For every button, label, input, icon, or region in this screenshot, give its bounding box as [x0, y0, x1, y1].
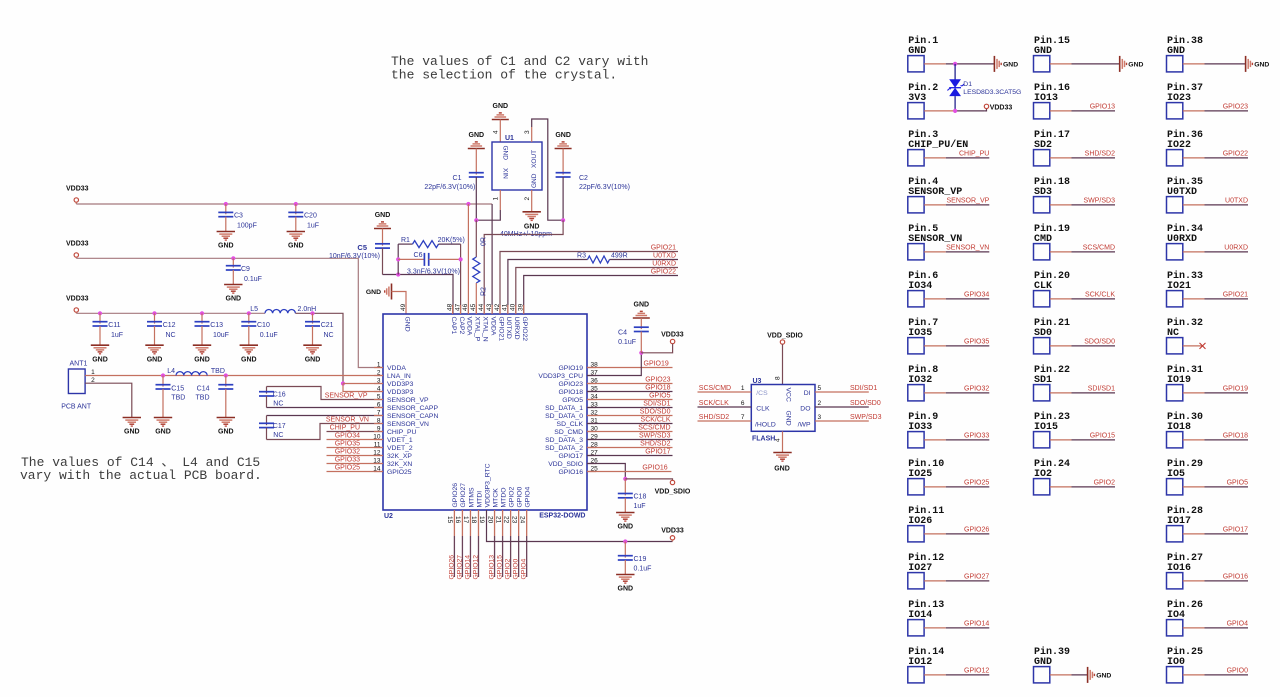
- svg-text:D1: D1: [963, 81, 972, 88]
- svg-text:U0TXD: U0TXD: [505, 317, 512, 339]
- wire/net SWP/SD3 right row: [587, 439, 673, 441]
- svg-text:0R: 0R: [481, 237, 488, 246]
- svg-text:32K_XN: 32K_XN: [387, 461, 412, 468]
- svg-text:23: 23: [510, 516, 517, 524]
- wire/net GPIO34 left pin: [327, 439, 384, 441]
- wire SENSOR_VP pin5: [267, 387, 384, 400]
- node C6 left: [396, 257, 400, 261]
- wire/net GPIO0 Pin.25: [1183, 674, 1205, 676]
- wire/net GPIO19 Pin.31: [1183, 392, 1205, 394]
- svg-text:GPIO33: GPIO33: [335, 457, 360, 464]
- svg-text:2: 2: [818, 400, 822, 407]
- svg-text:C2: C2: [579, 175, 588, 182]
- svg-text:CAP1: CAP1: [450, 317, 457, 335]
- svg-text:GPIO27: GPIO27: [460, 483, 467, 508]
- node C19: [623, 539, 627, 543]
- wire/net GPIO18 Pin.30: [1183, 439, 1205, 441]
- svg-text:C13: C13: [210, 322, 223, 329]
- wire to pin4 VDD3P3: [343, 384, 383, 392]
- svg-text:GPIO22: GPIO22: [521, 317, 528, 342]
- capacitor C11: [99, 313, 101, 323]
- wire GPIO19 row right: [587, 367, 673, 369]
- svg-text:GND: GND: [1128, 62, 1143, 69]
- wire/net GPIO32 left pin: [327, 455, 384, 457]
- wire flash pin4 GND: [782, 431, 784, 452]
- svg-text:GPIO23: GPIO23: [645, 377, 670, 384]
- svg-text:MTDI: MTDI: [476, 491, 483, 508]
- svg-text:GND: GND: [241, 356, 257, 363]
- svg-text:GND: GND: [147, 356, 163, 363]
- wire/net SCK/CLK Pin.20: [1050, 298, 1072, 300]
- svg-text:SDI/SD1: SDI/SD1: [850, 385, 877, 392]
- svg-text:LNA_IN: LNA_IN: [387, 373, 411, 380]
- wire/net GPIO14 Pin.13: [924, 627, 946, 629]
- svg-text:3: 3: [524, 130, 531, 134]
- inductor L5: [265, 310, 295, 314]
- capacitor C13: [201, 313, 203, 323]
- node rail1-pin46: [466, 202, 470, 206]
- svg-text:SD_DATA_3: SD_DATA_3: [545, 437, 583, 444]
- svg-text:GPIO25: GPIO25: [335, 465, 360, 472]
- svg-text:CAP2: CAP2: [458, 317, 465, 335]
- svg-text:GPIO4: GPIO4: [524, 487, 531, 508]
- node C4-VDD33: [639, 351, 643, 355]
- svg-text:GND: GND: [469, 132, 485, 139]
- svg-text:GND: GND: [502, 146, 509, 161]
- svg-text:GPIO4: GPIO4: [521, 559, 528, 580]
- svg-text:499R: 499R: [611, 252, 628, 259]
- svg-text:C5: C5: [357, 243, 367, 252]
- svg-text:GPIO25: GPIO25: [964, 479, 989, 486]
- wire XTAL_P R2 to pin45: [475, 220, 477, 257]
- svg-text:0.1uF: 0.1uF: [634, 565, 652, 572]
- svg-text:GPIO35: GPIO35: [964, 338, 989, 345]
- svg-text:GPIO27: GPIO27: [456, 555, 463, 580]
- svg-text:GND: GND: [155, 429, 171, 436]
- wire/net GPIO18 right row: [587, 391, 673, 393]
- svg-text:22: 22: [502, 516, 509, 524]
- svg-text:22pF/6.3V(10%): 22pF/6.3V(10%): [424, 184, 475, 191]
- svg-text:XTAL_P: XTAL_P: [474, 317, 481, 342]
- svg-text:SDI/SD1: SDI/SD1: [1088, 385, 1115, 392]
- capacitor C9: [232, 258, 234, 267]
- svg-text:GPIO34: GPIO34: [335, 433, 360, 440]
- svg-text:GPIO26: GPIO26: [448, 555, 455, 580]
- capacitor C18: [624, 479, 626, 496]
- wire/net GPIO5 Pin.29: [1183, 486, 1205, 488]
- capacitor C5: [382, 229, 384, 246]
- wire/net GPIO21 Pin.33: [1183, 298, 1205, 300]
- wire U0TXD row with R3: [508, 260, 588, 315]
- wire GPIO22 row: [524, 276, 678, 315]
- wire Pin.15 to ground: [1050, 63, 1072, 65]
- svg-text:the selection of the crystal.: the selection of the crystal.: [391, 68, 617, 83]
- svg-text:GND: GND: [305, 356, 321, 363]
- wire/net SHD/SD2 flash left: [698, 420, 752, 422]
- svg-text:U0RXD: U0RXD: [652, 260, 676, 267]
- wire/net SDI/SD1 flash right: [815, 391, 869, 393]
- svg-text:GPIO17: GPIO17: [558, 453, 583, 460]
- svg-text:U0RXD: U0RXD: [1224, 244, 1248, 251]
- wire/net GPIO17 right row: [587, 455, 673, 457]
- node C6 right: [459, 257, 463, 261]
- svg-text:21: 21: [494, 516, 501, 524]
- svg-text:LESD8D3.3CAT5G: LESD8D3.3CAT5G: [963, 89, 1021, 96]
- ground below C12: [145, 344, 163, 346]
- svg-text:U0TXD: U0TXD: [653, 252, 676, 259]
- svg-text:U3: U3: [753, 378, 762, 385]
- svg-text:SWP/SD3: SWP/SD3: [1083, 197, 1115, 204]
- svg-text:VCC: VCC: [785, 388, 792, 402]
- svg-text:MTCK: MTCK: [492, 488, 499, 508]
- wire crystal pin4 to gnd: [499, 120, 501, 143]
- svg-text:NC: NC: [273, 432, 283, 439]
- wire/net GPIO25 left pin: [327, 471, 384, 473]
- svg-text:C9: C9: [241, 266, 250, 273]
- svg-text:NC: NC: [273, 400, 283, 407]
- capacitor C12: [154, 313, 156, 323]
- ground below C9: [224, 284, 242, 286]
- svg-text:1uF: 1uF: [307, 223, 319, 230]
- node XTAL_N: [561, 218, 565, 222]
- svg-text:vary with the actual PCB board: vary with the actual PCB board.: [20, 468, 262, 483]
- svg-text:VDD33: VDD33: [66, 296, 89, 303]
- svg-text:SHD/SD2: SHD/SD2: [640, 441, 670, 448]
- node XTAL_P: [474, 218, 478, 222]
- power terminal VDD33 at Pin.2: [984, 109, 986, 111]
- svg-text:U2: U2: [384, 513, 393, 520]
- svg-text:SDO/SD0: SDO/SD0: [640, 409, 671, 416]
- capacitor C20: [295, 204, 297, 214]
- svg-text:MTDO: MTDO: [500, 487, 507, 507]
- capacitor C15: [162, 376, 164, 387]
- svg-text:C1: C1: [453, 175, 462, 182]
- svg-text:VDD33: VDD33: [990, 104, 1013, 111]
- svg-text:SDO/SD0: SDO/SD0: [850, 400, 881, 407]
- wire/net GPIO35 left pin: [327, 447, 384, 449]
- svg-text:CLK: CLK: [756, 405, 770, 412]
- svg-text:NC: NC: [166, 332, 176, 339]
- svg-text:GND: GND: [618, 586, 634, 593]
- svg-text:VDD_SDIO: VDD_SDIO: [655, 489, 691, 496]
- svg-text:U0RXD: U0RXD: [513, 317, 520, 340]
- svg-text:C19: C19: [634, 556, 647, 563]
- wire/net SWP/SD3 flash right: [815, 420, 869, 422]
- svg-text:PCB ANT: PCB ANT: [61, 403, 92, 410]
- capacitor C3: [225, 204, 227, 214]
- node rail3-C12: [152, 311, 156, 315]
- node rail3-C13: [200, 311, 204, 315]
- wire/net GPIO33 Pin.9: [924, 439, 946, 441]
- wire/net SDO/SD0 right row: [587, 415, 673, 417]
- svg-text:C4: C4: [618, 329, 627, 336]
- wire Pin.38 to ground: [1183, 63, 1205, 65]
- svg-text:2: 2: [524, 197, 531, 201]
- wire Pin.1 gnd net: [953, 62, 957, 66]
- svg-text:10nF/6.3V(10%): 10nF/6.3V(10%): [329, 253, 380, 260]
- wire ANT pin1 to LNA_IN: [85, 375, 383, 377]
- wire/net SCS/CMD right row: [587, 431, 673, 433]
- svg-text:VDDA: VDDA: [466, 317, 473, 336]
- power terminal VDD_SDIO right of U2: [625, 479, 672, 481]
- ground below C10: [240, 344, 258, 346]
- svg-text:VDD33: VDD33: [661, 331, 684, 338]
- svg-text:C11: C11: [108, 322, 120, 329]
- node rail2-C9: [231, 256, 235, 260]
- wire VDD3P3_RTC pin19 to VDD33 rail: [487, 510, 673, 542]
- svg-text:GPIO22: GPIO22: [651, 268, 676, 275]
- svg-text:GPIO12: GPIO12: [964, 667, 989, 674]
- wire/net GPIO4 Pin.26: [1183, 627, 1205, 629]
- node ant-C14: [224, 373, 228, 377]
- svg-text:SD_DATA_1: SD_DATA_1: [545, 405, 583, 412]
- svg-text:SENSOR_VN: SENSOR_VN: [387, 421, 429, 428]
- svg-text:GPIO0: GPIO0: [516, 487, 523, 508]
- svg-text:SENSOR_CAPP: SENSOR_CAPP: [387, 405, 438, 412]
- U2 bottom pin wires: [453, 510, 455, 536]
- wire Pin.1 to ground: [924, 63, 946, 65]
- wire GPIO21 row: [500, 252, 678, 315]
- ground below C19: [616, 574, 634, 576]
- capacitor C14: [225, 376, 227, 387]
- svg-text:SD_CLK: SD_CLK: [557, 421, 584, 428]
- wire/net U0TXD Pin.35: [1183, 204, 1205, 206]
- svg-text:GPIO0: GPIO0: [513, 559, 520, 580]
- svg-text:C10: C10: [257, 322, 270, 329]
- wire/net SDI/SD1 right row: [587, 407, 673, 409]
- wire R1 right vertical to pin47: [460, 244, 462, 314]
- wire crystal pin2 to gnd: [531, 190, 533, 212]
- svg-text:GPIO16: GPIO16: [642, 464, 667, 471]
- svg-text:20K(5%): 20K(5%): [438, 237, 465, 244]
- svg-text:GPIO18: GPIO18: [645, 385, 670, 392]
- capacitor C10: [248, 313, 250, 323]
- wire/net GPIO15 Pin.23: [1050, 439, 1072, 441]
- node rail3-C11: [98, 311, 102, 315]
- wire/net GPIO26 Pin.11: [924, 533, 946, 535]
- ground below crystal pin2: [523, 211, 541, 213]
- node VDD3P3: [341, 381, 345, 385]
- svg-text:CHIP_PU: CHIP_PU: [387, 429, 417, 436]
- svg-text:VDD33: VDD33: [66, 186, 89, 193]
- svg-text:16: 16: [454, 516, 461, 524]
- svg-text:GND: GND: [774, 466, 790, 473]
- wire/net GPIO16 Pin.27: [1183, 580, 1205, 582]
- svg-text:GND: GND: [124, 429, 140, 436]
- svg-text:VDD_SDIO: VDD_SDIO: [767, 332, 803, 339]
- svg-text:32K_XP: 32K_XP: [387, 453, 412, 460]
- svg-text:GPIO14: GPIO14: [464, 555, 471, 580]
- svg-text:/HOLD: /HOLD: [755, 421, 776, 428]
- IC U3 FLASH: [751, 385, 815, 432]
- wire/net GPIO17 Pin.28: [1183, 533, 1205, 535]
- svg-text:GPIO27: GPIO27: [964, 573, 989, 580]
- svg-text:VDET_1: VDET_1: [387, 437, 413, 444]
- svg-text:GPIO25: GPIO25: [387, 469, 412, 476]
- svg-text:GPIO21: GPIO21: [497, 317, 504, 342]
- svg-text:GND: GND: [218, 429, 234, 436]
- svg-text:18: 18: [470, 516, 477, 524]
- svg-text:C14: C14: [197, 386, 210, 393]
- svg-text:C12: C12: [163, 322, 176, 329]
- svg-text:/WP: /WP: [798, 421, 811, 428]
- svg-text:15: 15: [446, 516, 453, 524]
- svg-text:GND: GND: [1254, 62, 1269, 69]
- svg-text:24: 24: [518, 516, 525, 524]
- svg-text:SCK/CLK: SCK/CLK: [1085, 291, 1115, 298]
- svg-text:SD_DATA_2: SD_DATA_2: [545, 445, 583, 452]
- ground below C13: [193, 344, 211, 346]
- wire GPIO16 pin25: [587, 471, 671, 473]
- svg-text:GND: GND: [226, 296, 242, 303]
- svg-text:8: 8: [774, 376, 781, 380]
- ground Pin.38: [1245, 56, 1247, 72]
- svg-text:VDET_2: VDET_2: [387, 445, 413, 452]
- svg-text:3.3nF/6.3V(10%): 3.3nF/6.3V(10%): [407, 268, 460, 275]
- ground below C21: [303, 344, 321, 346]
- svg-text:VDD3P3_CPU: VDD3P3_CPU: [538, 373, 583, 380]
- svg-text:R3: R3: [577, 252, 586, 259]
- ground below C18: [616, 512, 634, 514]
- svg-text:0.1uF: 0.1uF: [618, 339, 636, 346]
- svg-text:XTAL_N: XTAL_N: [482, 317, 489, 342]
- svg-text:17: 17: [462, 516, 469, 524]
- wire/net SENSOR_VN Pin.5: [924, 251, 946, 253]
- svg-text:GPIO22: GPIO22: [1223, 150, 1248, 157]
- antenna ANT1: [68, 369, 85, 394]
- resistor R1: [398, 243, 412, 245]
- ground Pin.15: [1119, 56, 1121, 72]
- node rail1-C3: [224, 202, 228, 206]
- svg-text:10uF: 10uF: [213, 332, 229, 339]
- svg-text:1uF: 1uF: [634, 503, 646, 510]
- svg-text:L5: L5: [250, 306, 258, 313]
- svg-text:R1: R1: [401, 237, 410, 244]
- svg-text:GND: GND: [531, 173, 538, 188]
- wire C17 to SENSOR_VN pin8: [267, 424, 384, 440]
- svg-text:GPIO13: GPIO13: [1090, 103, 1115, 110]
- svg-text:GPIO32: GPIO32: [335, 449, 360, 456]
- svg-text:CHIP_PU: CHIP_PU: [330, 425, 360, 432]
- wire VDD33 rail2: [76, 258, 383, 367]
- crystal U1: [492, 142, 542, 190]
- svg-text:GND: GND: [92, 356, 108, 363]
- wire/net SCS/CMD Pin.19: [1050, 251, 1072, 253]
- ground below C3: [217, 231, 235, 233]
- svg-text:VDD3P3: VDD3P3: [387, 381, 414, 388]
- wire U0RXD row: [516, 268, 678, 315]
- svg-text:CHIP_PU: CHIP_PU: [959, 150, 989, 157]
- node ant-C15: [161, 373, 165, 377]
- svg-text:GND: GND: [524, 223, 540, 230]
- svg-text:C6: C6: [414, 252, 423, 259]
- svg-text:GND: GND: [785, 411, 792, 426]
- svg-text:GPIO34: GPIO34: [964, 291, 989, 298]
- diode D1 TVS: [954, 64, 956, 80]
- wire/net SWP/SD3 Pin.18: [1050, 204, 1072, 206]
- wire crystal pin1 XIN: [499, 190, 501, 210]
- svg-text:100pF: 100pF: [237, 223, 257, 230]
- wire/net GPIO13 Pin.16: [1050, 110, 1072, 112]
- wire Pin.32 no-connect: [1183, 345, 1203, 347]
- svg-text:U1: U1: [505, 135, 514, 142]
- svg-text:GPIO2: GPIO2: [508, 487, 515, 508]
- svg-text:GPIO19: GPIO19: [558, 365, 583, 372]
- svg-text:GND: GND: [403, 317, 410, 332]
- svg-text:VDD3P3_RTC: VDD3P3_RTC: [484, 463, 491, 507]
- svg-text:GPIO18: GPIO18: [1223, 432, 1248, 439]
- svg-text:SD_CMD: SD_CMD: [554, 429, 583, 436]
- svg-text:GPIO15: GPIO15: [1090, 432, 1115, 439]
- svg-text:SHD/SD2: SHD/SD2: [699, 414, 729, 421]
- svg-text:GND: GND: [218, 243, 234, 250]
- wire ANT pin2 to ground: [85, 383, 132, 417]
- svg-text:R2: R2: [481, 287, 488, 296]
- svg-text:ANT1: ANT1: [70, 361, 88, 368]
- wire VDD3P3_CPU to C4/VDD33: [587, 353, 641, 376]
- capacitor C19: [624, 542, 626, 558]
- IC U2 ESP32-DOWD: [383, 314, 587, 510]
- svg-text:VDD33: VDD33: [66, 241, 89, 248]
- svg-text:6: 6: [741, 400, 745, 407]
- svg-text:SCK/CLK: SCK/CLK: [699, 400, 729, 407]
- svg-text:GPIO16: GPIO16: [558, 469, 583, 476]
- svg-text:SENSOR_CAPN: SENSOR_CAPN: [387, 413, 438, 420]
- svg-text:GPIO2: GPIO2: [505, 559, 512, 580]
- wire XTAL_N to pin44: [484, 220, 563, 314]
- ground below C15: [154, 417, 172, 419]
- svg-text:GPIO5: GPIO5: [1227, 479, 1249, 486]
- wire/net SDO/SD0 flash right: [815, 406, 869, 408]
- wire/net GPIO34 Pin.6: [924, 298, 946, 300]
- svg-text:SWP/SD3: SWP/SD3: [639, 433, 671, 440]
- wire flash pin8 VCC: [782, 344, 784, 384]
- svg-text:0.1uF: 0.1uF: [244, 276, 262, 283]
- svg-text:GPIO2: GPIO2: [1094, 479, 1116, 486]
- svg-text:GND: GND: [493, 103, 509, 110]
- ground ANT pin2: [123, 417, 141, 419]
- node CAP1-R1C6: [396, 272, 400, 276]
- ground below flash: [773, 452, 791, 454]
- svg-text:7: 7: [741, 414, 745, 421]
- svg-text:TBD: TBD: [211, 368, 225, 375]
- svg-text:GPIO12: GPIO12: [472, 555, 479, 580]
- capacitor C16: [266, 387, 268, 394]
- wire VDD33 rail3: [76, 312, 265, 314]
- inductor L4: [176, 372, 207, 376]
- svg-text:GPIO26: GPIO26: [452, 483, 459, 508]
- svg-text:C16: C16: [273, 391, 286, 398]
- wire/net SHD/SD2 Pin.17: [1050, 157, 1072, 159]
- wire/net GPIO5 right row: [587, 399, 673, 401]
- svg-text:C18: C18: [634, 494, 647, 501]
- svg-text:GPIO23: GPIO23: [558, 381, 583, 388]
- svg-text:U0TXD: U0TXD: [1225, 197, 1248, 204]
- ground below C14: [217, 417, 235, 419]
- svg-text:C17: C17: [273, 423, 286, 430]
- svg-text:SCS/CMD: SCS/CMD: [638, 425, 670, 432]
- svg-text:L4: L4: [167, 368, 175, 375]
- svg-text:GPIO16: GPIO16: [1223, 573, 1248, 580]
- svg-text:DO: DO: [800, 405, 810, 412]
- node rail3-C10: [247, 311, 251, 315]
- svg-text:DI: DI: [804, 390, 811, 397]
- capacitor C2: [562, 149, 564, 175]
- svg-text:SENSOR_VP: SENSOR_VP: [387, 397, 429, 404]
- wire/net GPIO25 Pin.10: [924, 486, 946, 488]
- svg-text:SENSOR_VN: SENSOR_VN: [326, 416, 369, 423]
- wire/net GPIO35 Pin.7: [924, 345, 946, 347]
